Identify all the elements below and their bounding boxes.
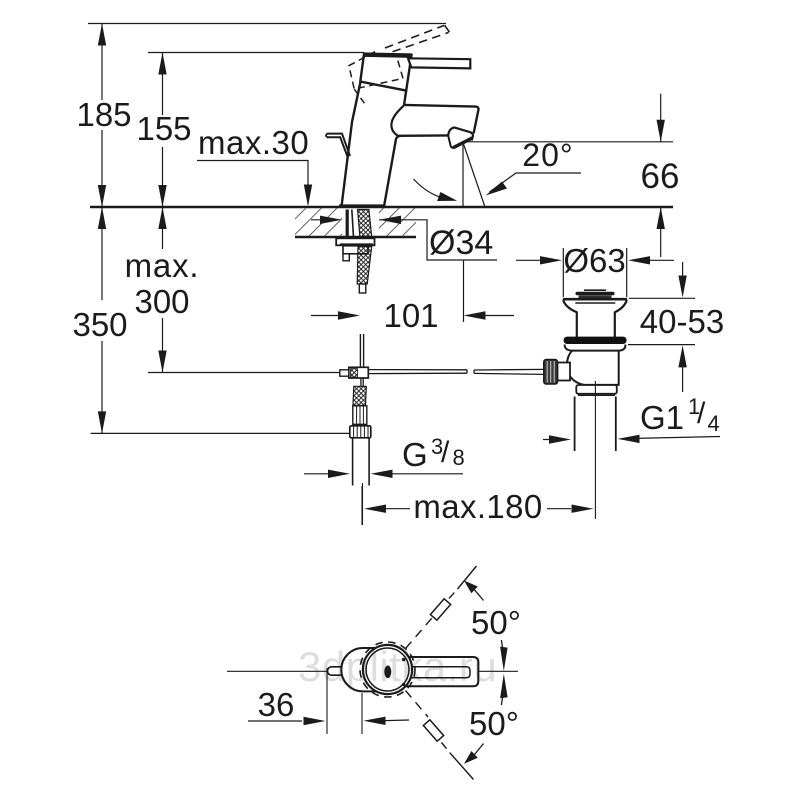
fixing nut tab: [343, 254, 349, 261]
svg-text:max.180: max.180: [413, 488, 542, 525]
head cap (solid, tilted): [360, 54, 411, 91]
plan lever hole (dark): [384, 666, 391, 679]
threaded shank through counter (crosshatch): [358, 210, 372, 238]
drain stopper plateau: [584, 289, 606, 291]
body right edge upper (head to spout): [404, 91, 406, 106]
plan cartridge outer circle: [363, 645, 412, 694]
swivel arc arrow at water line: [414, 179, 453, 200]
fixing nut: [343, 246, 368, 254]
pop-up rod from faucet: [360, 334, 363, 367]
faucet body left edge: [342, 82, 361, 206]
drain centerline: [594, 381, 596, 519]
supply connection nut: [350, 426, 371, 438]
dimension 155 line: [158, 53, 166, 208]
extension line top (185 extent): [88, 23, 446, 25]
upper angle arrow at ray: [464, 581, 478, 594]
plan cartridge inner circle: [366, 648, 409, 691]
svg-text:155: 155: [136, 110, 191, 147]
svg-text:185: 185: [76, 96, 131, 133]
horizontal pop-up linkage rod left part: [368, 370, 467, 374]
dimension 101: [311, 311, 514, 319]
svg-text:G1: G1: [640, 399, 684, 436]
solid lever handle: [408, 58, 470, 68]
svg-text:350: 350: [72, 306, 127, 343]
extension line 155 extent: [148, 52, 364, 54]
upper 50-degree dashed ray: [406, 566, 477, 649]
horizontal pop-up linkage rod right part: [474, 369, 544, 374]
dimension 185 line: [98, 24, 106, 208]
tee crosshatch square: [351, 369, 358, 378]
body-spout concave fillet: [391, 105, 404, 136]
svg-text:/: /: [697, 397, 706, 430]
lower ray sleeve: [423, 720, 443, 741]
svg-text:/: /: [441, 436, 450, 469]
drain body sides: [567, 351, 619, 385]
svg-text:101: 101: [383, 297, 438, 334]
svg-text:50°: 50°: [469, 705, 519, 742]
plan screw dots: [402, 658, 405, 661]
drain body upper band: [565, 345, 626, 351]
aerator face (bold): [453, 138, 473, 148]
drain: diameter 63 dimension: [516, 248, 674, 297]
spout top and right edge: [404, 105, 478, 133]
supply pipe centerline extension: [361, 486, 363, 525]
dimension max.180: [363, 483, 594, 525]
svg-text:36: 36: [258, 686, 295, 723]
svg-text:300: 300: [134, 283, 189, 320]
dimension G1 1/4: [543, 435, 720, 444]
drain flange inner line: [575, 302, 615, 304]
svg-text:Ø63: Ø63: [563, 242, 625, 279]
dimension max.300 line: [158, 207, 166, 373]
svg-text:max.: max.: [125, 247, 200, 284]
dashed body corner echo: [354, 89, 366, 106]
plan view centerline: [227, 670, 518, 672]
svg-text:G: G: [402, 436, 428, 473]
extent line for 350 (supply end level): [91, 432, 352, 434]
plan lever: [405, 657, 478, 686]
label diameter 34 with leader: [311, 216, 497, 260]
pull-rod knob hook behind body: [327, 134, 350, 156]
lower 50-degree dashed ray: [406, 691, 474, 780]
dashed head cap (raised position): [349, 52, 403, 89]
faucet base plate on counter: [339, 204, 385, 208]
washer mid line: [340, 243, 373, 245]
dashed lever (raised position): [385, 25, 450, 52]
drain flange trumpet sides: [563, 300, 577, 337]
shank hole pull rod (dark): [346, 210, 349, 238]
dimension 66: [657, 94, 665, 257]
dimension G 3/8: [304, 470, 463, 478]
spout bottom edge: [399, 134, 449, 137]
svg-text:66: 66: [641, 157, 680, 196]
svg-text:Ø34: Ø34: [429, 224, 493, 262]
threaded adapter (crosshatch): [353, 386, 366, 405]
water stream vertical line: [462, 145, 464, 207]
svg-text:max.30: max.30: [198, 124, 309, 161]
aerator outline: [448, 127, 473, 140]
water line extension below counter: [463, 260, 465, 322]
extent line for max.300 (hose end level): [148, 372, 340, 374]
dimension 40-53: [628, 262, 695, 392]
plan pull rod end: [328, 667, 349, 675]
water stream 20-degree slanted line: [464, 144, 486, 207]
lower angle arrow at centerline: [500, 674, 508, 698]
head cap top edge bold: [364, 55, 413, 56]
dimension 36: [248, 668, 409, 734]
washer under counter: [336, 238, 374, 245]
drain tail pipe: [575, 397, 616, 452]
drain coupling nut: [576, 385, 617, 394]
svg-text:3dplitka.ru: 3dplitka.ru: [298, 643, 497, 690]
braided hose (crosshatch): [357, 247, 372, 285]
linkage tee block: [349, 367, 369, 378]
counter section hatching left of hole: [295, 208, 342, 236]
drain stopper cap layer 2: [579, 295, 612, 298]
faucet body right edge lower: [384, 136, 401, 207]
rod below tee: [361, 378, 363, 386]
supply pipe: [353, 438, 370, 486]
plan lever slot: [408, 667, 470, 678]
lower angle arrow at ray: [464, 751, 478, 764]
upper ray sleeve (lever end symbol): [430, 599, 450, 620]
tee left nipple: [340, 370, 349, 376]
svg-text:8: 8: [453, 445, 465, 470]
svg-text:50°: 50°: [471, 604, 521, 641]
svg-text:4: 4: [708, 411, 720, 436]
coupling nut lower line: [578, 394, 615, 396]
spout height reference line (66 top): [466, 141, 673, 143]
aerator left edge: [448, 136, 454, 148]
shank left edge in hole: [352, 210, 354, 238]
knurled knob of ball joint: [544, 360, 558, 385]
ribbed coupling: [353, 406, 367, 425]
upper angle arrow at centerline: [500, 647, 508, 671]
svg-text:20°: 20°: [522, 137, 573, 173]
hose nipple end: [359, 284, 366, 293]
counter bottom line: [295, 236, 416, 238]
dimension 350 line: [98, 207, 106, 433]
counter section hatching right of hole: [379, 208, 416, 236]
counter top surface line: [90, 206, 673, 208]
drain flange top: [563, 298, 627, 301]
ball joint housing: [558, 363, 571, 381]
plan faucet body (pill): [341, 648, 389, 691]
svg-text:40-53: 40-53: [640, 303, 724, 340]
plan dashed swivel circle: [360, 642, 415, 697]
drain stopper cap layer 1: [576, 292, 615, 295]
drain O-ring (black): [564, 337, 627, 344]
